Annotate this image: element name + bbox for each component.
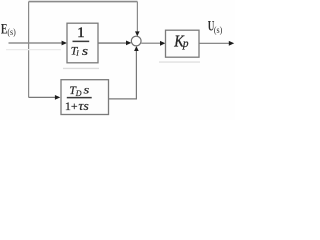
- ghost shadow under input line: [6, 49, 61, 51]
- derivative numerator T_D s: [69, 83, 90, 98]
- ghost shadow under Kp block: [159, 61, 200, 63]
- svg-text:(s): (s): [7, 27, 15, 38]
- svg-text:p: p: [182, 38, 189, 50]
- label U(s): [208, 19, 222, 36]
- ghost shadow under integrator block: [63, 67, 99, 69]
- wire: top feedback horizontal: [29, 1, 138, 3]
- arrowhead into Kp block: [160, 41, 165, 46]
- wire: branch vertical through junction: [28, 2, 30, 98]
- svg-text:I: I: [75, 49, 79, 58]
- label E(s): [1, 22, 16, 39]
- arrowhead output end: [229, 41, 234, 46]
- integrator block U1 box: [67, 23, 98, 63]
- wire: derivative block output up to summing junction: [109, 50, 137, 99]
- wire: Kp output line: [199, 42, 230, 44]
- derivative fraction bar: [67, 97, 92, 99]
- summing junction circle: [131, 36, 141, 46]
- svg-text:1+: 1+: [65, 99, 78, 113]
- svg-text:(s): (s): [214, 25, 222, 36]
- wire: integrator output to summing junction: [98, 42, 127, 44]
- svg-text:s: s: [82, 44, 88, 58]
- gain block Kp label: [173, 31, 189, 50]
- svg-text:s: s: [84, 83, 90, 97]
- svg-text:1: 1: [77, 25, 84, 41]
- arrowhead into derivative block: [55, 95, 60, 100]
- svg-text:D: D: [75, 89, 82, 98]
- wire: top drop into summing junction: [136, 2, 138, 33]
- wire: summing junction to Kp block: [141, 42, 161, 44]
- arrowhead top into summing junction: [135, 31, 140, 36]
- wire: input line from E(s): [9, 42, 63, 44]
- integrator denominator T_I s: [71, 43, 89, 58]
- arrowhead into integrator: [62, 41, 67, 46]
- integrator fraction bar: [73, 40, 90, 42]
- svg-text:τs: τs: [78, 99, 89, 113]
- gain block Kp box: [166, 30, 200, 57]
- derivative denominator 1+ts: [65, 99, 89, 113]
- derivative block U2 box: [61, 80, 109, 115]
- arrowhead bottom into summing junction: [134, 46, 139, 51]
- arrowhead left into summing junction: [126, 41, 131, 46]
- wire: bottom branch horizontal: [29, 96, 57, 98]
